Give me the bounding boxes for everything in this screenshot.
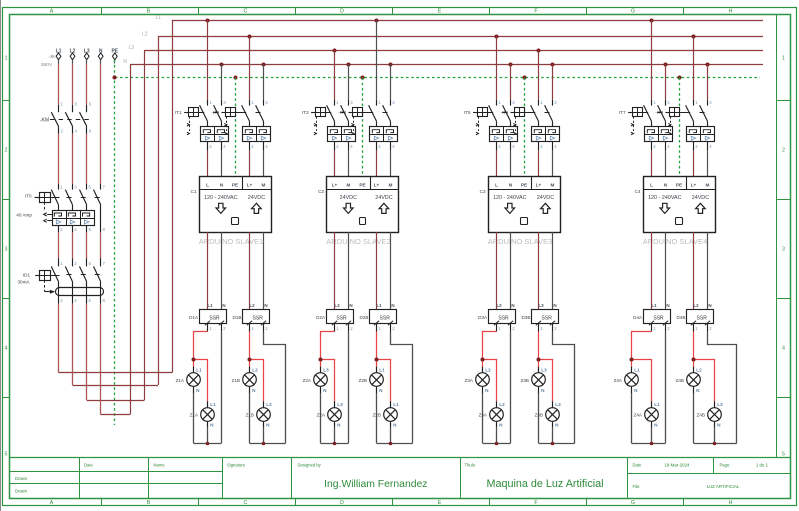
relay D4B (SSR) — [687, 303, 714, 331]
junction Z4B N — [713, 442, 717, 446]
wire M to C2 — [390, 150, 392, 176]
svg-text:L3: L3 — [555, 402, 561, 407]
wire L+ to C2 — [376, 150, 378, 176]
svg-text:Z4B: Z4B — [676, 378, 684, 383]
wire PE bus (green dashed horizontal) — [115, 77, 760, 79]
svg-text:L1: L1 — [651, 303, 657, 308]
breaker -IT4 — [349, 100, 398, 151]
lamp Z2A (lower) — [328, 401, 343, 427]
svg-text:IT3: IT3 — [302, 110, 309, 115]
junction L2 tap — [692, 35, 696, 39]
wire M to C1 — [263, 150, 265, 176]
junction Z2B N — [389, 442, 393, 446]
svg-text:N: N — [264, 303, 267, 308]
wire L+ to C3 — [538, 150, 540, 176]
wire N bottom bus Z4B — [694, 443, 737, 445]
lamp Z4A (upper) — [625, 367, 640, 393]
svg-text:Z3A: Z3A — [479, 413, 488, 418]
wire L1 from ID1 to riser — [59, 20, 173, 373]
svg-text:L2: L2 — [485, 367, 491, 372]
svg-text:Z3B: Z3B — [535, 413, 543, 418]
relay D1A (SSR) — [200, 303, 227, 331]
svg-text:H: H — [729, 9, 733, 15]
wire N C2 to D2B — [390, 232, 392, 310]
junction L2 tap — [248, 35, 252, 39]
svg-text:L3: L3 — [323, 367, 329, 372]
svg-text:Page:: Page: — [720, 463, 731, 468]
wire N return D1B — [264, 332, 286, 444]
wire N C3 to D3B — [552, 232, 554, 310]
svg-text:-IT4: -IT4 — [338, 110, 346, 115]
junction Z2A feed — [319, 358, 323, 362]
svg-text:120 - 240VAC: 120 - 240VAC — [493, 195, 527, 201]
svg-text:-KM: -KM — [40, 118, 49, 124]
wire L2 C1 to D1B — [249, 232, 251, 310]
svg-text:L2: L2 — [142, 32, 148, 38]
wire L1 drop to breaker — [651, 20, 653, 100]
wire N return D2B — [391, 332, 413, 444]
svg-text:1: 1 — [5, 56, 8, 62]
svg-text:Signature: Signature — [227, 463, 246, 468]
svg-text:IT1: IT1 — [175, 110, 182, 115]
wire N return D1A — [221, 332, 223, 444]
svg-text:C: C — [244, 9, 248, 15]
svg-text:SSR: SSR — [380, 315, 391, 321]
wire L2 C3 to D3A — [496, 232, 498, 310]
svg-text:D4B: D4B — [676, 315, 685, 320]
junction N tap — [262, 63, 266, 67]
breaker -IT6 — [511, 100, 560, 151]
svg-text:D4A: D4A — [633, 315, 643, 320]
breaker IT7 — [628, 100, 672, 151]
svg-text:N: N — [511, 303, 514, 308]
svg-text:SSR: SSR — [653, 315, 664, 321]
svg-text:D2B: D2B — [359, 315, 368, 320]
svg-text:24VDC: 24VDC — [375, 195, 392, 201]
svg-text:1 de 1: 1 de 1 — [756, 463, 769, 468]
wire PE drop to C4 — [679, 78, 681, 177]
wire N lamp Z3B lower to bus — [552, 428, 554, 444]
svg-text:L1: L1 — [654, 402, 660, 407]
svg-text:LUZ ARTIFICIAL: LUZ ARTIFICIAL — [707, 484, 740, 489]
svg-text:L3: L3 — [334, 303, 340, 308]
svg-text:PE: PE — [232, 182, 238, 187]
svg-text:Name: Name — [154, 463, 166, 468]
wire N return D4A — [665, 332, 667, 444]
wire L to C1 — [207, 150, 209, 176]
wire N lamp Z1B to bus — [249, 393, 251, 443]
junction L1 tap — [375, 19, 379, 23]
wire N return D2A — [348, 332, 350, 444]
wire L1 C2 to D2B — [376, 232, 378, 310]
wire N to C2 — [348, 150, 350, 176]
svg-text:L2: L2 — [717, 402, 723, 407]
junction Z4A N — [650, 442, 654, 446]
junction Z4A feed — [630, 358, 634, 362]
breaker -IT2 — [222, 100, 271, 151]
svg-text:ARDUINO SLAVE4: ARDUINO SLAVE4 — [643, 237, 707, 246]
wire N lamp Z4A to bus — [631, 393, 633, 443]
svg-text:L1: L1 — [379, 367, 385, 372]
contactor -KM — [50, 102, 92, 134]
wire N drop to breaker — [707, 64, 709, 100]
relay D2B (SSR) — [370, 303, 397, 331]
svg-text:C2: C2 — [318, 189, 324, 194]
wire N return D3A — [510, 332, 512, 444]
svg-text:1: 1 — [782, 56, 785, 62]
wire N C4 to D4A — [665, 232, 667, 310]
svg-text:Z1B: Z1B — [246, 413, 254, 418]
wire PE drop to C1 — [235, 78, 237, 177]
svg-text:N: N — [708, 303, 711, 308]
junction Z1A N — [206, 442, 210, 446]
svg-text:L: L — [650, 182, 653, 187]
junction Z1B N — [262, 442, 266, 446]
wire phase feeders from -JK to -KM — [59, 64, 101, 105]
wire PE (green dashed vertical from terminal) — [114, 60, 116, 425]
junction N tap — [706, 63, 710, 67]
svg-text:M: M — [347, 182, 351, 187]
lamp Z4B (lower) — [708, 401, 723, 427]
svg-text:E: E — [438, 9, 442, 15]
svg-text:L1: L1 — [634, 367, 640, 372]
wire N lamp Z3A to bus — [482, 393, 484, 443]
relay D3B (SSR) — [532, 303, 559, 331]
svg-text:L2: L2 — [252, 367, 258, 372]
wire N to C4 — [665, 150, 667, 176]
svg-text:ARDUINO SLAVE3: ARDUINO SLAVE3 — [488, 237, 552, 246]
wire N C1 to D1A — [221, 232, 223, 310]
wire L1 drop to breaker — [376, 20, 378, 100]
wire L3 drop to breaker — [538, 50, 540, 100]
wire N bottom bus Z2A — [321, 443, 349, 445]
junction Z3A N — [495, 442, 499, 446]
wire N from ID1 to riser — [101, 64, 131, 415]
svg-text:C3: C3 — [480, 189, 486, 194]
svg-text:D1B: D1B — [232, 315, 241, 320]
wire N lamp Z2B lower to bus — [390, 428, 392, 444]
wire L2 distribution bus — [158, 36, 763, 38]
junction N tap — [509, 63, 513, 67]
wire N lamp Z4B to bus — [693, 393, 695, 443]
svg-text:L2: L2 — [696, 367, 702, 372]
svg-text:B: B — [147, 500, 151, 506]
lamp Z3B (upper) — [532, 367, 547, 393]
svg-text:N: N — [222, 303, 225, 308]
svg-text:PE: PE — [359, 182, 365, 187]
wire L2 drop to breaker — [496, 37, 498, 100]
lamp Z4A (lower) — [645, 401, 660, 427]
svg-text:SSR: SSR — [336, 315, 347, 321]
svg-text:L3: L3 — [128, 45, 134, 51]
svg-text:D2A: D2A — [316, 315, 326, 320]
svg-text:SSR: SSR — [209, 315, 220, 321]
wire N to C1 — [221, 150, 223, 176]
svg-text:Z3B: Z3B — [521, 378, 529, 383]
svg-text:Z2A: Z2A — [317, 413, 326, 418]
svg-text:120 - 240VAC: 120 - 240VAC — [204, 195, 238, 201]
wire N lamp Z4B lower to bus — [714, 428, 716, 444]
wire N distribution bus — [130, 64, 763, 66]
wire N lamp Z1B lower to bus — [263, 428, 265, 444]
svg-text:L2: L2 — [249, 303, 255, 308]
lamp Z3B (lower) — [546, 401, 561, 427]
junction L2 tap — [495, 35, 499, 39]
svg-text:40 Amp: 40 Amp — [16, 213, 32, 218]
svg-text:-JK: -JK — [48, 54, 55, 59]
svg-text:C1: C1 — [191, 189, 197, 194]
svg-text:L2: L2 — [693, 303, 699, 308]
svg-text:M: M — [551, 182, 555, 187]
svg-text:N: N — [666, 303, 669, 308]
svg-text:L2: L2 — [499, 402, 505, 407]
svg-text:A: A — [50, 500, 54, 506]
svg-text:L+: L+ — [536, 182, 542, 187]
junction PE at feeder — [113, 76, 117, 80]
wire L1 D4A to lamps — [632, 332, 652, 402]
svg-text:IT0: IT0 — [25, 194, 32, 199]
junction N tap — [551, 63, 555, 67]
svg-text:Z3A: Z3A — [465, 378, 474, 383]
svg-text:D3A: D3A — [478, 315, 488, 320]
wire L to C2 — [334, 150, 336, 176]
svg-text:Z2A: Z2A — [303, 378, 312, 383]
svg-text:Date: Date — [633, 463, 643, 468]
breaker IT0 40 Amp labels — [16, 194, 32, 218]
wire -KM to IT0 — [59, 105, 101, 184]
module C4 (ARDUINO SLAVE4) — [643, 176, 716, 232]
svg-text:SSR: SSR — [697, 315, 708, 321]
junction Z1B feed — [248, 358, 252, 362]
junction Z2B feed — [375, 358, 379, 362]
wire N bottom bus Z3B — [539, 443, 575, 445]
junction PE tap — [678, 76, 682, 80]
junction L1 tap — [206, 19, 210, 23]
wire PE drop to C3 — [524, 78, 526, 177]
svg-text:L+: L+ — [374, 182, 380, 187]
svg-text:L2: L2 — [266, 402, 272, 407]
wire N bottom bus Z4A — [632, 443, 666, 445]
lamp Z1B (upper) — [243, 367, 258, 393]
wire L1 D1A to lamps — [194, 332, 208, 402]
relay D4A (SSR) — [644, 303, 671, 331]
svg-text:D: D — [340, 9, 344, 15]
svg-text:Z2B: Z2B — [373, 413, 381, 418]
wire N drop to breaker — [510, 64, 512, 100]
wire M to C3 — [552, 150, 554, 176]
svg-text:3: 3 — [5, 247, 8, 253]
svg-text:D3B: D3B — [521, 315, 530, 320]
svg-text:Z1A: Z1A — [190, 413, 199, 418]
svg-text:Drawn: Drawn — [15, 476, 28, 481]
junction N tap — [347, 63, 351, 67]
svg-text:18-Mar-2024: 18-Mar-2024 — [664, 463, 690, 468]
svg-text:3: 3 — [782, 247, 785, 253]
svg-text:L1: L1 — [207, 303, 213, 308]
wire N bottom bus Z1A — [194, 443, 222, 445]
svg-text:N: N — [391, 303, 394, 308]
terminal block -JK 380V — [41, 53, 117, 68]
svg-text:L1: L1 — [155, 15, 161, 21]
svg-text:Ing.William Fernandez: Ing.William Fernandez — [324, 479, 427, 490]
svg-text:24VDC: 24VDC — [537, 195, 554, 201]
junction Z3B N — [551, 442, 555, 446]
RCD ID1 — [35, 259, 105, 304]
junction L1 tap — [650, 19, 654, 23]
wire L2 D3A to lamps — [483, 332, 497, 402]
wire N drop to breaker — [263, 64, 265, 100]
svg-text:L1: L1 — [210, 402, 216, 407]
lamp Z1B (lower) — [257, 401, 272, 427]
svg-text:L1: L1 — [376, 303, 382, 308]
wire L1 drop to breaker — [207, 20, 209, 100]
svg-text:Z1A: Z1A — [176, 378, 185, 383]
wire L to C3 — [496, 150, 498, 176]
wire N C4 to D4B — [707, 232, 709, 310]
svg-text:24VDC: 24VDC — [340, 195, 357, 201]
wire L1 D2B to lamps — [377, 332, 391, 402]
junction Z4B feed — [692, 358, 696, 362]
wire M to C4 — [707, 150, 709, 176]
wire IT0 to ID1 — [59, 232, 101, 258]
svg-text:L3: L3 — [337, 402, 343, 407]
junction PE tap — [361, 76, 365, 80]
svg-text:120 - 240VAC: 120 - 240VAC — [648, 195, 682, 201]
breaker IT0 — [35, 184, 106, 232]
svg-text:4: 4 — [782, 346, 785, 352]
svg-text:380V: 380V — [41, 62, 53, 68]
junction PE tap — [234, 76, 238, 80]
wire N C3 to D3A — [510, 232, 512, 310]
svg-text:ARDUINO SLAVE1: ARDUINO SLAVE1 — [199, 237, 263, 246]
svg-text:D1A: D1A — [189, 315, 199, 320]
junction Z1A feed — [192, 358, 196, 362]
svg-text:Designed by: Designed by — [298, 463, 322, 468]
lamp Z2B (lower) — [384, 401, 399, 427]
relay D3A (SSR) — [489, 303, 516, 331]
wire L1 C4 to D4A — [651, 232, 653, 310]
wire N lamp Z2B to bus — [376, 393, 378, 443]
wire L2 D1B to lamps — [250, 332, 264, 402]
junction PE tap — [523, 76, 527, 80]
wire L3 C2 to D2A — [334, 232, 336, 310]
wire N lamp Z3B to bus — [538, 393, 540, 443]
svg-text:L2: L2 — [496, 303, 502, 308]
breaker IT1 — [184, 100, 228, 151]
wire N lamp Z2A to bus — [320, 393, 322, 443]
wire N drop to breaker — [552, 64, 554, 100]
wire L+ to C4 — [693, 150, 695, 176]
wire L2 C4 to D4B — [693, 232, 695, 310]
svg-text:C4: C4 — [635, 189, 641, 194]
relay D1B (SSR) — [243, 303, 270, 331]
svg-text:H: H — [729, 500, 733, 506]
wire N lamp Z3A lower to bus — [496, 428, 498, 444]
svg-text:M: M — [706, 182, 710, 187]
junction Z2A N — [333, 442, 337, 446]
module C2 (ARDUINO SLAVE2) — [327, 176, 399, 232]
junction N tap — [220, 63, 224, 67]
wire L2 D4B to lamps — [694, 332, 715, 402]
svg-text:PE: PE — [676, 182, 682, 187]
svg-text:L+: L+ — [332, 182, 338, 187]
lamp Z1A (upper) — [187, 367, 202, 393]
wire L3 D2A to lamps — [321, 332, 335, 402]
svg-text:E: E — [438, 500, 442, 506]
svg-text:SSR: SSR — [498, 315, 509, 321]
svg-text:Z1B: Z1B — [232, 378, 240, 383]
svg-text:IT7: IT7 — [619, 110, 626, 115]
svg-text:ARDUINO SLAVE2: ARDUINO SLAVE2 — [326, 237, 390, 246]
svg-text:Z4A: Z4A — [614, 378, 623, 383]
wire N drop to breaker — [221, 64, 223, 100]
wire N drop to breaker — [390, 64, 392, 100]
wire L3 distribution bus — [145, 50, 764, 52]
wire N drop to breaker — [348, 64, 350, 100]
lamp Z3A (upper) — [476, 367, 491, 393]
wire N lamp Z2A lower to bus — [334, 428, 336, 444]
lamp Z3A (lower) — [490, 401, 505, 427]
relay D2A (SSR) — [327, 303, 354, 331]
breaker IT3 — [311, 100, 355, 151]
junction N tap — [389, 63, 393, 67]
junction Z3A feed — [481, 358, 485, 362]
wire N lamp Z4A lower to bus — [651, 428, 653, 444]
wire L1 distribution bus — [172, 20, 763, 22]
svg-text:Z4A: Z4A — [634, 413, 643, 418]
svg-text:N: N — [349, 303, 352, 308]
module C3 (ARDUINO SLAVE3) — [488, 176, 561, 232]
svg-text:G: G — [631, 9, 635, 15]
svg-text:L: L — [495, 182, 498, 187]
svg-text:-IT2: -IT2 — [211, 110, 219, 115]
svg-text:Z2B: Z2B — [359, 378, 367, 383]
wire L2 drop to breaker — [693, 37, 695, 100]
wire N bottom bus Z1B — [250, 443, 286, 445]
wire N return D3B — [553, 332, 575, 444]
svg-text:Drawn: Drawn — [15, 488, 28, 493]
junction L3 tap — [333, 49, 337, 53]
svg-text:Date: Date — [84, 463, 94, 468]
svg-text:L+: L+ — [247, 182, 253, 187]
svg-text:4: 4 — [5, 346, 8, 352]
svg-text:2: 2 — [782, 148, 785, 154]
breaker IT5 — [473, 100, 517, 151]
lamp Z2B (upper) — [370, 367, 385, 393]
svg-text:SSR: SSR — [253, 315, 264, 321]
lamp Z4B (upper) — [687, 367, 702, 393]
svg-text:D: D — [340, 500, 344, 506]
wire L1 C1 to D1A — [207, 232, 209, 310]
svg-text:5: 5 — [782, 452, 785, 458]
svg-text:F: F — [534, 500, 537, 506]
svg-text:Maquina de Luz Artificial: Maquina de Luz Artificial — [486, 478, 603, 490]
svg-text:Título: Título — [465, 463, 476, 468]
svg-text:L1: L1 — [393, 402, 399, 407]
svg-text:G: G — [631, 500, 635, 506]
svg-text:M: M — [262, 182, 266, 187]
svg-text:B: B — [147, 9, 151, 15]
svg-text:SSR: SSR — [542, 315, 553, 321]
lamp Z1A (lower) — [201, 401, 216, 427]
svg-text:L1: L1 — [196, 367, 202, 372]
svg-text:N: N — [553, 303, 556, 308]
wire L3 from ID1 to riser — [87, 50, 145, 401]
svg-text:ID1: ID1 — [23, 273, 31, 278]
svg-text:IT5: IT5 — [464, 110, 471, 115]
RCD ID1 30mA labels — [17, 273, 30, 285]
svg-text:L3: L3 — [541, 367, 547, 372]
